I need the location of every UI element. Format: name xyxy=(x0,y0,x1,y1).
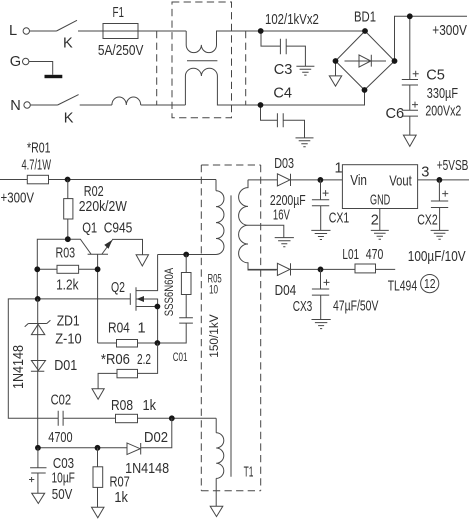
svg-text:Vout: Vout xyxy=(389,173,412,189)
svg-text:F1: F1 xyxy=(113,5,125,21)
svg-text:12: 12 xyxy=(424,277,436,291)
svg-text:CX3: CX3 xyxy=(293,299,313,315)
svg-text:1N4148: 1N4148 xyxy=(125,461,169,477)
svg-text:47µF/50V: 47µF/50V xyxy=(333,299,379,315)
svg-text:R03: R03 xyxy=(56,245,76,261)
svg-text:BD1: BD1 xyxy=(354,10,376,26)
svg-text:*R06: *R06 xyxy=(101,352,130,368)
svg-text:N: N xyxy=(10,98,21,114)
svg-text:+300V: +300V xyxy=(1,190,35,206)
svg-text:4.7/1W: 4.7/1W xyxy=(22,157,52,173)
svg-text:C03: C03 xyxy=(53,456,74,472)
svg-text:1: 1 xyxy=(138,321,146,337)
svg-text:L: L xyxy=(9,23,17,39)
svg-text:102/1kVx2: 102/1kVx2 xyxy=(265,12,319,28)
svg-text:10: 10 xyxy=(209,285,218,297)
svg-text:R07: R07 xyxy=(110,475,130,491)
svg-text:K: K xyxy=(64,111,74,127)
svg-text:CX2: CX2 xyxy=(417,213,438,229)
svg-text:200Vx2: 200Vx2 xyxy=(425,103,461,119)
svg-text:SSS6N60A: SSS6N60A xyxy=(162,267,176,316)
svg-text:5A/250V: 5A/250V xyxy=(98,43,144,59)
svg-text:+5VSB: +5VSB xyxy=(437,158,469,174)
svg-text:1k: 1k xyxy=(114,490,128,506)
svg-text:50V: 50V xyxy=(52,487,73,503)
svg-text:3: 3 xyxy=(421,164,429,180)
svg-text:D01: D01 xyxy=(54,358,77,374)
svg-text:L01: L01 xyxy=(342,247,359,263)
svg-text:C4: C4 xyxy=(273,86,292,102)
svg-text:10µF: 10µF xyxy=(52,471,75,487)
svg-text:100µF/10V: 100µF/10V xyxy=(408,249,466,265)
svg-text:C02: C02 xyxy=(51,393,72,409)
svg-text:C3: C3 xyxy=(274,62,293,78)
svg-text:C6: C6 xyxy=(386,106,405,122)
svg-text:4700: 4700 xyxy=(48,430,72,446)
svg-text:CX1: CX1 xyxy=(329,210,350,226)
svg-text:*R01: *R01 xyxy=(27,141,51,157)
svg-text:T1: T1 xyxy=(244,464,254,480)
svg-text:220k/2W: 220k/2W xyxy=(79,199,127,215)
svg-text:1: 1 xyxy=(335,161,343,177)
svg-text:R04: R04 xyxy=(108,321,130,337)
svg-text:C01: C01 xyxy=(173,352,188,364)
svg-text:1.2k: 1.2k xyxy=(56,278,79,294)
svg-text:330µF: 330µF xyxy=(427,86,458,102)
svg-text:2: 2 xyxy=(371,213,379,229)
svg-text:G: G xyxy=(10,54,21,70)
svg-text:16V: 16V xyxy=(273,207,290,223)
svg-text:+300V: +300V xyxy=(432,23,467,39)
svg-text:R08: R08 xyxy=(111,398,133,414)
svg-text:K: K xyxy=(63,36,73,52)
svg-text:2.2: 2.2 xyxy=(137,352,151,368)
svg-text:Q1: Q1 xyxy=(82,221,97,237)
svg-text:ZD1: ZD1 xyxy=(57,314,80,330)
svg-text:1k: 1k xyxy=(143,398,157,414)
svg-text:D03: D03 xyxy=(274,156,294,172)
svg-text:GND: GND xyxy=(370,193,390,209)
svg-text:470: 470 xyxy=(366,247,384,263)
svg-text:R02: R02 xyxy=(84,184,104,200)
svg-text:150/1kV: 150/1kV xyxy=(207,314,221,358)
svg-text:D02: D02 xyxy=(144,430,168,446)
svg-text:C5: C5 xyxy=(426,68,445,84)
svg-text:1N4148: 1N4148 xyxy=(11,345,27,389)
svg-text:TL494: TL494 xyxy=(388,279,417,295)
svg-text:Q2: Q2 xyxy=(111,280,125,296)
svg-text:D04: D04 xyxy=(275,283,297,299)
svg-text:Vin: Vin xyxy=(350,173,367,189)
svg-text:Z-10: Z-10 xyxy=(55,332,81,348)
svg-text:C945: C945 xyxy=(104,221,133,237)
